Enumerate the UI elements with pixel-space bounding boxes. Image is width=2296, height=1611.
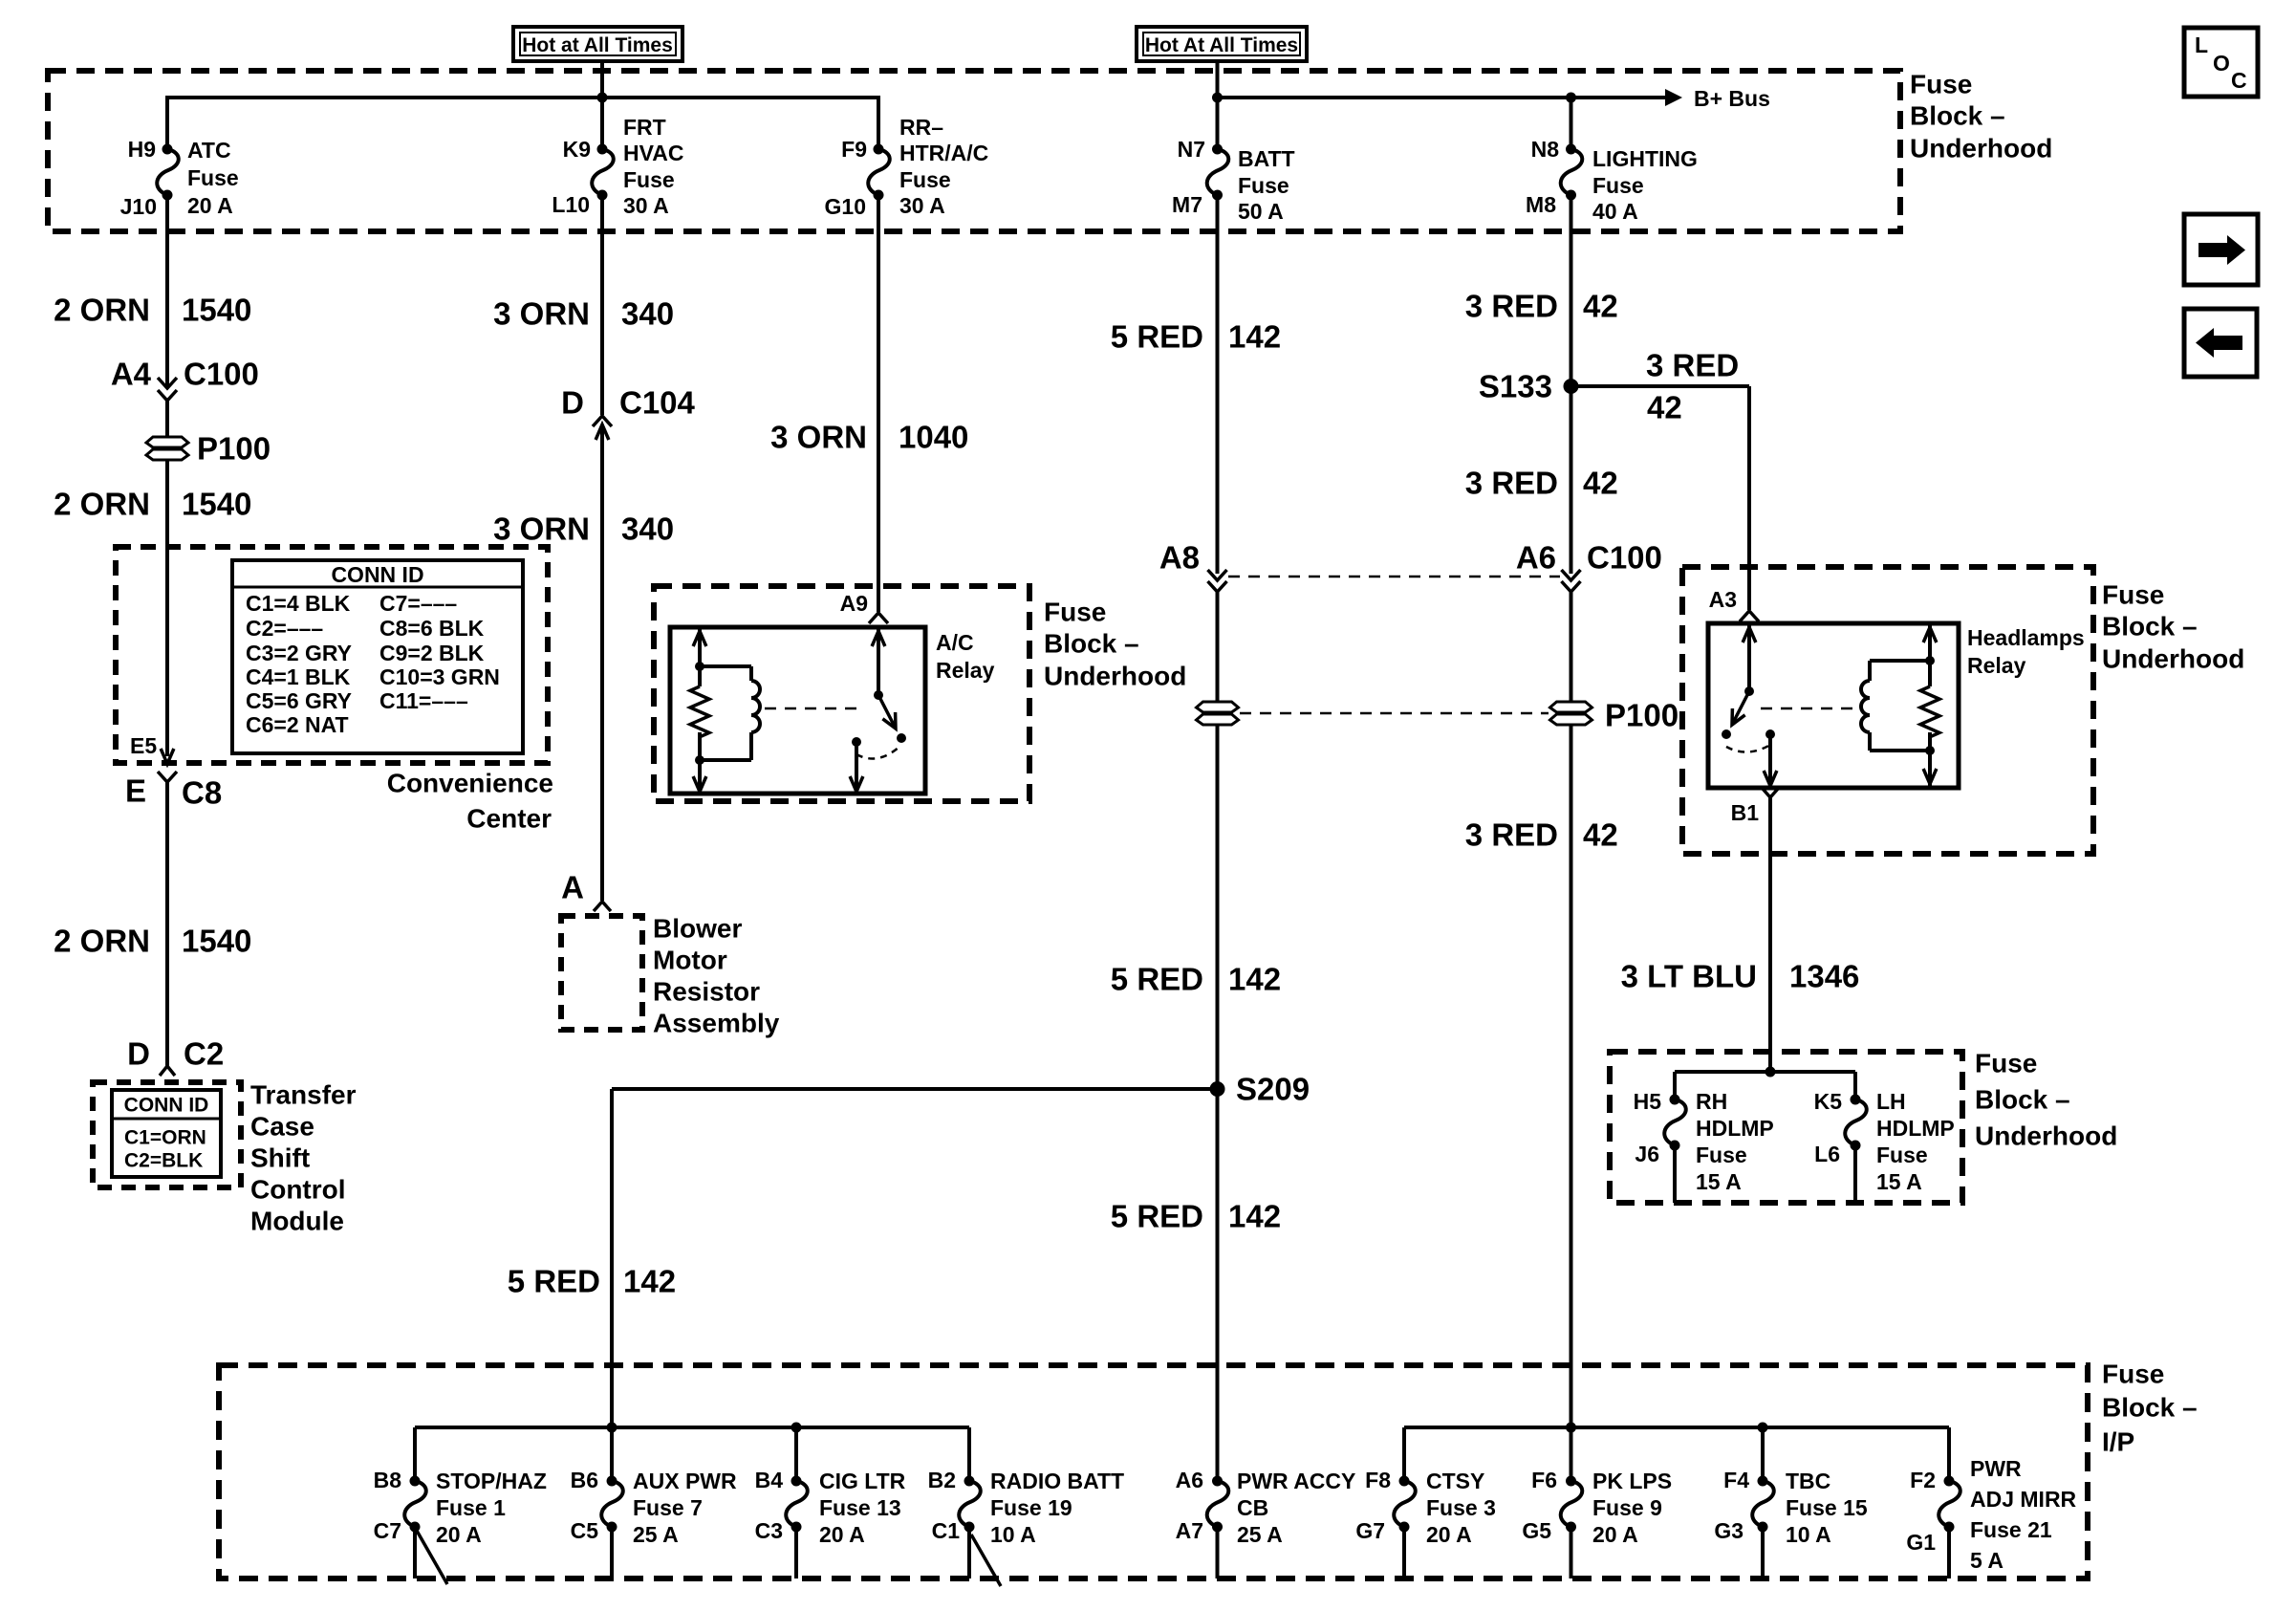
svg-text:CONN ID: CONN ID xyxy=(331,562,423,587)
svg-text:B4: B4 xyxy=(755,1468,784,1492)
wire ATC: 2 ORN 1540 segment to C100 xyxy=(165,231,169,387)
svg-text:1540: 1540 xyxy=(182,293,251,328)
svg-text:Fuse: Fuse xyxy=(2102,1360,2164,1389)
headlamps relay resistor branch (right) with arrows xyxy=(1920,623,1939,788)
legend box L-O-C (top right corner) xyxy=(2184,28,2258,97)
svg-text:Hot at All Times: Hot at All Times xyxy=(522,34,673,56)
grommet P100 (left) xyxy=(146,431,271,467)
svg-text:C2=–––: C2=––– xyxy=(246,616,323,641)
svg-text:C9=2 BLK: C9=2 BLK xyxy=(379,641,485,665)
svg-text:Center: Center xyxy=(466,804,552,834)
svg-text:E: E xyxy=(125,773,146,809)
svg-text:C1=4 BLK: C1=4 BLK xyxy=(246,591,351,616)
svg-text:PWR: PWR xyxy=(1970,1456,2022,1481)
node: junction feed/AUX PWR on left bus xyxy=(607,1423,617,1433)
label: Headlamps Relay xyxy=(1967,625,2085,678)
svg-text:C10=3 GRN: C10=3 GRN xyxy=(379,664,500,689)
wire label: 3 ORN 340 (lower) xyxy=(493,512,674,547)
svg-text:C1=ORN: C1=ORN xyxy=(124,1127,206,1149)
svg-text:Block –: Block – xyxy=(2102,612,2198,642)
svg-text:Shift: Shift xyxy=(250,1143,310,1173)
svg-text:Fuse 9: Fuse 9 xyxy=(1592,1495,1662,1520)
conn id table (transfer case) xyxy=(112,1090,221,1177)
wire label: 3 ORN 1040 xyxy=(770,420,968,455)
svg-text:I/P: I/P xyxy=(2102,1427,2134,1457)
connector C2 pin D (female V at module) xyxy=(127,1036,224,1077)
svg-text:Motor: Motor xyxy=(653,946,727,975)
svg-text:F9: F9 xyxy=(841,137,867,162)
wire: top bus drop to FRT HVAC fuse xyxy=(600,98,604,151)
svg-text:O: O xyxy=(2213,51,2230,76)
svg-text:HDLMP: HDLMP xyxy=(1696,1116,1774,1141)
svg-text:Fuse 19: Fuse 19 xyxy=(990,1495,1072,1520)
grommet P100 (on BATT wire) xyxy=(1197,702,1239,725)
svg-text:3 RED: 3 RED xyxy=(1465,466,1558,501)
svg-text:20 A: 20 A xyxy=(436,1522,482,1547)
svg-text:B2: B2 xyxy=(928,1468,956,1492)
wire label: 3 RED 42 (S133 branch) xyxy=(1646,348,1739,425)
svg-text:Transfer: Transfer xyxy=(250,1080,357,1110)
node S133 (splice) xyxy=(1479,369,1579,404)
svg-text:40 A: 40 A xyxy=(1592,199,1638,224)
grommet P100 (on LIGHTING wire) xyxy=(1550,698,1679,733)
wire below TBC fuse xyxy=(1761,1527,1765,1578)
wire LIGHTING: 3 RED 42 to S133 xyxy=(1570,195,1573,386)
svg-text:Underhood: Underhood xyxy=(1044,662,1186,691)
top bus wire (left fuse block) xyxy=(167,96,878,99)
node: junction at BATT feed and B+ bus xyxy=(1212,93,1223,103)
fuse RH HDLMP 15A (terminals H5/J6) xyxy=(1634,1089,1774,1194)
wire FRT HVAC: 3 ORN 340 to C104 xyxy=(600,231,604,415)
wire label: 5 RED 142 (lower) xyxy=(1111,1199,1281,1234)
connector pin B1 (headlamps relay output) xyxy=(1731,789,1778,825)
a/c relay switch blade with arrow xyxy=(878,695,896,729)
fuse ATC 20A (terminals H9/J10) xyxy=(120,137,239,219)
svg-text:15 A: 15 A xyxy=(1876,1169,1922,1194)
svg-text:42: 42 xyxy=(1583,289,1618,324)
svg-text:B6: B6 xyxy=(571,1468,598,1492)
label: Fuse Block - Underhood (hdlmp) xyxy=(1975,1049,2117,1151)
svg-text:S209: S209 xyxy=(1236,1072,1310,1107)
wire BATT: 5 RED 142 to A8 xyxy=(1216,231,1220,574)
svg-text:PWR ACCY: PWR ACCY xyxy=(1237,1469,1355,1493)
svg-text:Fuse: Fuse xyxy=(899,167,951,192)
wire: B+ bus drop to BATT fuse xyxy=(1216,98,1220,151)
a/c relay coil-switch dashed link xyxy=(765,708,865,710)
svg-text:5 RED: 5 RED xyxy=(1111,1199,1203,1234)
wire label: 3 LT BLU 1346 xyxy=(1621,959,1860,994)
wire label: 5 RED 142 (upper) xyxy=(1111,319,1281,355)
svg-text:H9: H9 xyxy=(128,137,156,162)
svg-text:Assembly: Assembly xyxy=(653,1009,780,1038)
a/c relay switch travel dashed arc xyxy=(856,747,899,759)
svg-text:B1: B1 xyxy=(1731,800,1760,825)
fuse LH HDLMP 15A (terminals K5/L6) xyxy=(1814,1089,1955,1194)
headlamps relay switch pivot xyxy=(1744,686,1754,696)
a/c relay inner box xyxy=(670,627,925,794)
svg-text:Underhood: Underhood xyxy=(1910,134,2052,163)
svg-text:5 RED: 5 RED xyxy=(1111,962,1203,997)
headlamps relay inner box xyxy=(1708,623,1959,788)
svg-text:C100: C100 xyxy=(184,357,259,392)
legend box: left arrow xyxy=(2184,309,2257,377)
svg-text:L10: L10 xyxy=(552,192,590,217)
svg-text:15 A: 15 A xyxy=(1696,1169,1742,1194)
svg-text:Block –: Block – xyxy=(2102,1393,2198,1423)
wire label: 3 ORN 340 (upper) xyxy=(493,296,674,332)
svg-text:C7=–––: C7=––– xyxy=(379,591,457,616)
svg-text:2 ORN: 2 ORN xyxy=(54,924,150,959)
headlamps relay switch feed with up arrow xyxy=(1743,623,1756,691)
svg-text:J6: J6 xyxy=(1635,1142,1659,1166)
svg-text:C3=2 GRY: C3=2 GRY xyxy=(246,641,352,665)
svg-text:C1: C1 xyxy=(932,1518,961,1543)
a/c relay switch contact (right) xyxy=(897,733,906,743)
wire BATT: S209 down to PWR ACCY CB xyxy=(1216,1089,1220,1481)
fuse block I/P dashed box xyxy=(219,1365,2088,1578)
connector C100 pin A8 (inline chevrons) xyxy=(1159,540,1227,593)
wire ATC: C8 to transfer case module xyxy=(165,782,169,1067)
wire below FRT HVAC fuse to dashed edge xyxy=(600,195,604,233)
svg-text:LIGHTING: LIGHTING xyxy=(1592,146,1698,171)
svg-text:10 A: 10 A xyxy=(990,1522,1036,1547)
wire below RH HDLMP fuse xyxy=(1673,1145,1677,1203)
svg-text:G1: G1 xyxy=(1906,1530,1936,1555)
wire below BATT fuse to dashed edge xyxy=(1216,195,1220,233)
a/c relay switch pivot xyxy=(874,690,883,700)
svg-text:BATT: BATT xyxy=(1238,146,1295,171)
svg-text:Block –: Block – xyxy=(1910,101,2005,131)
wire LIGHTING: P100 down to I/P fuse block xyxy=(1570,725,1573,1427)
svg-text:5 A: 5 A xyxy=(1970,1548,2004,1573)
svg-text:B+ Bus: B+ Bus xyxy=(1694,86,1770,111)
svg-text:50 A: 50 A xyxy=(1238,199,1284,224)
wire ATC: C100 to P100 grommet xyxy=(165,401,169,438)
svg-text:C5: C5 xyxy=(571,1518,599,1543)
svg-text:Fuse: Fuse xyxy=(1592,173,1644,198)
headlamps relay outer dashed box (fuse block underhood) xyxy=(1682,567,2093,854)
wire below PK LPS fuse xyxy=(1570,1527,1573,1578)
svg-text:20 A: 20 A xyxy=(1426,1522,1472,1547)
svg-text:STOP/HAZ: STOP/HAZ xyxy=(436,1469,547,1493)
svg-text:F2: F2 xyxy=(1910,1468,1936,1492)
svg-text:Fuse 13: Fuse 13 xyxy=(819,1495,901,1520)
wire: right bus drop to PWR ADJ MIRR fuse xyxy=(1947,1427,1951,1485)
power label box: Hot at All Times (left) xyxy=(513,27,682,61)
B+ bus wire with arrow xyxy=(1218,86,1770,111)
svg-text:Fuse 3: Fuse 3 xyxy=(1426,1495,1496,1520)
label: Transfer Case Shift Control Module xyxy=(250,1080,357,1236)
wire BATT: A8 to P100 xyxy=(1216,592,1220,703)
svg-text:Underhood: Underhood xyxy=(1975,1121,2117,1151)
svg-text:3 RED: 3 RED xyxy=(1646,348,1739,383)
transfer case shift control module dashed box xyxy=(93,1082,241,1187)
svg-text:P100: P100 xyxy=(197,431,271,467)
a/c relay coil branch xyxy=(700,666,760,760)
svg-text:Fuse 1: Fuse 1 xyxy=(436,1495,506,1520)
wire: BATT feed into I/P box xyxy=(1216,1365,1220,1485)
svg-text:1346: 1346 xyxy=(1789,959,1859,994)
label: Fuse Block - Underhood (top right) xyxy=(1910,70,2052,163)
node: junction of Hot feed and top bus xyxy=(597,93,608,103)
svg-text:Fuse: Fuse xyxy=(1876,1143,1928,1167)
headlamps relay coil-switch dashed link xyxy=(1761,708,1862,710)
wire label: 5 RED 142 (middle) xyxy=(1111,962,1281,997)
node: junction B1 wire to HDLMP bus xyxy=(1765,1067,1776,1078)
wire below ATC fuse to dashed edge xyxy=(165,195,169,233)
wire: left bus drop to CIG LTR fuse xyxy=(794,1427,798,1485)
fuse PWR ADJ MIRR Fuse 21 5A (terminals F2/G1) xyxy=(1906,1456,2076,1573)
svg-text:L6: L6 xyxy=(1814,1142,1840,1166)
svg-text:Fuse: Fuse xyxy=(2102,580,2164,610)
svg-text:42: 42 xyxy=(1647,390,1682,425)
svg-text:N8: N8 xyxy=(1531,137,1560,162)
node: junction CIG LTR on left bus xyxy=(791,1423,802,1433)
svg-text:20 A: 20 A xyxy=(187,193,233,218)
svg-text:P100: P100 xyxy=(1605,698,1679,733)
wire below CIG LTR fuse xyxy=(794,1527,798,1578)
svg-text:Relay: Relay xyxy=(1967,653,2026,678)
fuse STOP/HAZ Fuse 1 20A (terminals B8/C7) xyxy=(374,1468,547,1547)
svg-text:A/C: A/C xyxy=(936,630,974,655)
wire ATC: P100 down into Convenience Center xyxy=(165,460,169,756)
svg-text:F8: F8 xyxy=(1365,1468,1391,1492)
wire label: 5 RED 142 (S209 branch) xyxy=(508,1264,676,1299)
wire: top bus drop to RR-HTR/A/C fuse xyxy=(877,96,880,151)
fuse FRT HVAC 30A (terminals K9/L10) xyxy=(552,115,683,218)
convenience center dashed box xyxy=(116,547,548,763)
headlamps relay switch travel dashed arc xyxy=(1726,745,1770,752)
svg-text:C100: C100 xyxy=(1587,540,1662,576)
wire: left bus drop to AUX PWR fuse xyxy=(610,1427,614,1485)
label: Convenience Center xyxy=(387,769,553,834)
wire: right bus drop to CTSY fuse xyxy=(1402,1427,1406,1485)
svg-text:Case: Case xyxy=(250,1112,314,1142)
svg-text:D: D xyxy=(561,385,584,421)
wire below LH HDLMP fuse xyxy=(1853,1145,1857,1203)
node: a/c relay coil top junction xyxy=(695,662,704,671)
wire: right bus drop to TBC fuse xyxy=(1761,1427,1765,1485)
svg-text:1540: 1540 xyxy=(182,924,251,959)
node: junction PK LPS on right bus xyxy=(1566,1423,1576,1433)
node: junction TBC on right bus xyxy=(1758,1423,1768,1433)
svg-text:20 A: 20 A xyxy=(1592,1522,1638,1547)
wire: left bus drop to STOP/HAZ fuse xyxy=(413,1427,417,1485)
svg-text:CB: CB xyxy=(1237,1495,1268,1520)
headlamps relay coil branch xyxy=(1861,661,1930,751)
node: a/c relay coil bottom junction xyxy=(695,755,704,765)
svg-text:142: 142 xyxy=(1228,962,1281,997)
wire: bus drop to LH HDLMP fuse xyxy=(1853,1072,1857,1101)
circuit breaker PWR ACCY CB 25A (terminals A6/A7) xyxy=(1176,1468,1356,1547)
wire label: 3 RED 42 (upper) xyxy=(1465,289,1618,324)
svg-text:Convenience: Convenience xyxy=(387,769,553,798)
svg-text:3 ORN: 3 ORN xyxy=(770,420,867,455)
svg-text:142: 142 xyxy=(1228,1199,1281,1234)
svg-text:LH: LH xyxy=(1876,1089,1906,1114)
fuse LIGHTING 40A (terminals N8/M8) xyxy=(1526,137,1698,224)
svg-text:C2: C2 xyxy=(184,1036,224,1072)
svg-text:Fuse 21: Fuse 21 xyxy=(1970,1517,2052,1542)
svg-text:CIG LTR: CIG LTR xyxy=(819,1469,906,1493)
svg-text:Control: Control xyxy=(250,1175,346,1205)
svg-text:1540: 1540 xyxy=(182,487,251,522)
svg-text:Fuse: Fuse xyxy=(1044,598,1106,627)
wire below STOP/HAZ fuse xyxy=(413,1527,417,1578)
fuse PK LPS Fuse 9 20A (terminals F6/G5) xyxy=(1522,1468,1672,1547)
wire: right bus drop to PK LPS fuse xyxy=(1570,1427,1573,1485)
svg-text:20 A: 20 A xyxy=(819,1522,865,1547)
svg-text:J10: J10 xyxy=(120,194,157,219)
svg-text:A4: A4 xyxy=(111,357,152,392)
svg-text:30 A: 30 A xyxy=(899,193,945,218)
svg-text:3 RED: 3 RED xyxy=(1465,817,1558,853)
svg-text:G10: G10 xyxy=(825,194,866,219)
svg-text:G7: G7 xyxy=(1355,1518,1385,1543)
svg-text:F6: F6 xyxy=(1531,1468,1557,1492)
svg-text:G5: G5 xyxy=(1522,1518,1551,1543)
svg-text:Fuse: Fuse xyxy=(1696,1143,1747,1167)
wire: B1 down to HDLMP fuse block xyxy=(1768,797,1772,1072)
connector C100 pin A6 (inline chevrons) xyxy=(1516,540,1662,593)
fuse RADIO BATT Fuse 19 10A (terminals B2/C1) xyxy=(928,1468,1125,1547)
svg-text:C4=1 BLK: C4=1 BLK xyxy=(246,664,351,689)
svg-text:Hot At All Times: Hot At All Times xyxy=(1145,34,1298,56)
node S209 (splice) xyxy=(1210,1072,1310,1107)
svg-text:A6: A6 xyxy=(1516,540,1556,576)
wire label: 2 ORN 1540 (lower) xyxy=(54,924,251,959)
wire below CTSY fuse xyxy=(1402,1527,1406,1578)
svg-text:M7: M7 xyxy=(1172,192,1202,217)
label: terminal E5 (convenience center exit) xyxy=(130,733,157,758)
label: Fuse Block - Underhood (headlamps relay) xyxy=(2102,580,2244,674)
svg-text:3 RED: 3 RED xyxy=(1465,289,1558,324)
svg-text:3 LT BLU: 3 LT BLU xyxy=(1621,959,1757,994)
connector C8 pin E (arrow down at box edge + female V) xyxy=(125,749,222,811)
wire: S209 branch left and down to I/P fuse block xyxy=(612,1089,1218,1427)
label: Blower Motor Resistor Assembly xyxy=(653,914,780,1038)
svg-text:3 ORN: 3 ORN xyxy=(493,296,590,332)
svg-text:A9: A9 xyxy=(840,591,868,616)
svg-text:2 ORN: 2 ORN xyxy=(54,487,150,522)
hdlmp bus wire xyxy=(1675,1070,1855,1074)
svg-text:C5=6 GRY: C5=6 GRY xyxy=(246,688,352,713)
wire: B+ bus drop to LIGHTING fuse xyxy=(1570,98,1573,151)
wire below PWR ACCY CB xyxy=(1216,1527,1220,1578)
svg-text:B8: B8 xyxy=(374,1468,402,1492)
svg-text:5 RED: 5 RED xyxy=(1111,319,1203,355)
svg-text:A7: A7 xyxy=(1176,1518,1203,1543)
fuse block underhood dashed box (top) xyxy=(48,71,1900,231)
I/P left bus wire xyxy=(415,1426,969,1429)
svg-text:TBC: TBC xyxy=(1786,1469,1830,1493)
a/c relay resistor branch (left) with arrows xyxy=(690,627,709,792)
svg-text:Block –: Block – xyxy=(1975,1085,2070,1115)
legend box: right arrow xyxy=(2184,214,2258,285)
svg-text:M8: M8 xyxy=(1526,192,1556,217)
svg-text:Fuse: Fuse xyxy=(1238,173,1289,198)
svg-text:340: 340 xyxy=(621,512,674,547)
headlamps relay switch output contact xyxy=(1765,729,1775,739)
svg-text:C7: C7 xyxy=(374,1518,401,1543)
svg-text:C3: C3 xyxy=(755,1518,783,1543)
I/P right bus wire xyxy=(1404,1426,1949,1429)
svg-text:G3: G3 xyxy=(1714,1518,1744,1543)
label: Fuse Block - I/P xyxy=(2102,1360,2198,1457)
wire BATT: P100 down to S209 xyxy=(1216,725,1220,1089)
wire: left bus drop to RADIO BATT fuse xyxy=(967,1427,971,1485)
wire label: 3 RED 42 (middle) xyxy=(1465,466,1618,501)
wire LIGHTING: S133 to A6 xyxy=(1570,386,1573,574)
svg-text:N7: N7 xyxy=(1178,137,1205,162)
connector pin A (female V at blower resistor) xyxy=(561,870,611,912)
svg-text:RR–: RR– xyxy=(899,115,943,140)
fuse CTSY Fuse 3 20A (terminals F8/G7) xyxy=(1355,1468,1496,1547)
svg-text:C8=6 BLK: C8=6 BLK xyxy=(379,616,485,641)
svg-text:30 A: 30 A xyxy=(623,193,669,218)
svg-text:A8: A8 xyxy=(1159,540,1200,576)
wire LIGHTING: A6 to P100 xyxy=(1570,592,1573,703)
wire: S133 branch right and down to headlamps relay A3 xyxy=(1571,386,1750,610)
wire label: 2 ORN 1540 (middle) xyxy=(54,487,251,522)
fuse BATT 50A (terminals N7/M7) xyxy=(1172,137,1295,224)
svg-text:E5: E5 xyxy=(130,733,157,758)
wire below RADIO BATT fuse xyxy=(967,1527,971,1578)
svg-text:Headlamps: Headlamps xyxy=(1967,625,2085,650)
svg-text:F4: F4 xyxy=(1723,1468,1749,1492)
a/c relay switch feed with up arrow xyxy=(872,627,885,695)
svg-text:D: D xyxy=(127,1036,150,1072)
svg-text:Fuse: Fuse xyxy=(1910,70,1972,99)
svg-text:Fuse: Fuse xyxy=(187,165,239,190)
svg-text:A6: A6 xyxy=(1176,1468,1203,1492)
svg-text:3 ORN: 3 ORN xyxy=(493,512,590,547)
node: junction of B+ bus and LIGHTING drop xyxy=(1566,93,1576,103)
svg-text:10 A: 10 A xyxy=(1786,1522,1831,1547)
conn id table (convenience center) xyxy=(232,560,523,753)
wire from Hot at All Times box down to top bus xyxy=(600,61,604,98)
svg-text:Fuse: Fuse xyxy=(623,167,675,192)
svg-text:Module: Module xyxy=(250,1207,344,1236)
a/c relay outer dashed box (fuse block underhood) xyxy=(654,586,1029,801)
svg-text:ADJ MIRR: ADJ MIRR xyxy=(1970,1487,2077,1512)
svg-text:Resistor: Resistor xyxy=(653,977,760,1007)
node: headlamps relay coil top junction xyxy=(1925,656,1935,665)
wire from right Hot box down to B+ bus xyxy=(1216,59,1220,98)
svg-text:CONN ID: CONN ID xyxy=(124,1095,209,1117)
svg-text:HTR/A/C: HTR/A/C xyxy=(899,141,988,165)
hdlmp fuse block dashed box xyxy=(1610,1052,1962,1203)
svg-text:340: 340 xyxy=(621,296,674,332)
svg-text:142: 142 xyxy=(1228,319,1281,355)
svg-text:Relay: Relay xyxy=(936,658,995,683)
dashed link A8 to A6 (connector C100) xyxy=(1228,576,1560,578)
svg-text:C11=–––: C11=––– xyxy=(379,688,468,713)
wire below AUX PWR fuse xyxy=(610,1527,614,1578)
svg-text:ATC: ATC xyxy=(187,138,231,163)
fuse RR-HTR/A/C 30A (terminals F9/G10) xyxy=(825,115,989,219)
svg-text:C8: C8 xyxy=(182,775,222,811)
node: headlamps relay coil bottom junction xyxy=(1925,746,1935,755)
svg-text:AUX PWR: AUX PWR xyxy=(633,1469,737,1493)
a/c relay switch output contact xyxy=(852,737,861,747)
svg-text:42: 42 xyxy=(1583,466,1618,501)
wire below PWR ADJ MIRR fuse xyxy=(1947,1527,1951,1578)
headlamps relay output wire with down arrow xyxy=(1764,734,1777,786)
svg-text:42: 42 xyxy=(1583,817,1618,853)
connector C100 pin A4 (inline, arrow down + chevron) xyxy=(111,357,259,402)
svg-text:Underhood: Underhood xyxy=(2102,644,2244,674)
